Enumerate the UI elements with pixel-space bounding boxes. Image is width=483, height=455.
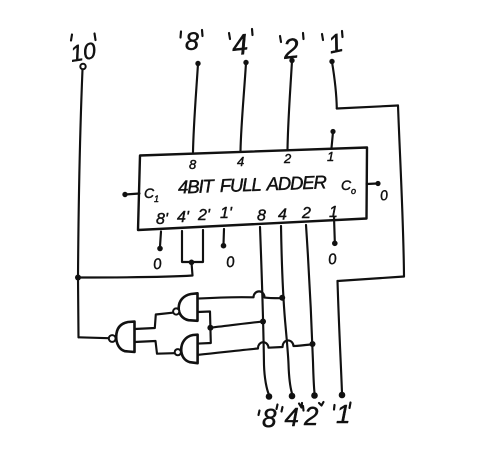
wire C0 stub	[367, 182, 378, 185]
terminal dot 1 top	[329, 59, 334, 64]
terminal dot pin 1 stub	[332, 241, 338, 247]
wire 1 top down to jog	[332, 62, 337, 109]
node adder pin1 top stub	[330, 129, 335, 134]
tick left of 1 top	[322, 34, 323, 40]
svg-text:2: 2	[301, 205, 311, 222]
wire 8 top to adder	[193, 64, 198, 152]
wire shared node to 8 line	[210, 322, 261, 328]
wire right side vertical	[398, 106, 404, 277]
wire pin 4 vertical to bottom terminal	[281, 226, 292, 394]
tick left of 2 bottom	[302, 406, 305, 411]
terminal dot 1 bottom	[339, 392, 346, 399]
pin label 2 bottom row	[301, 205, 311, 222]
label 0 at pin 1	[327, 251, 338, 269]
tick right of 4 top	[251, 29, 254, 35]
terminal dot 8'	[157, 246, 163, 252]
wire junction down and left to node A	[78, 262, 193, 277]
tick right of 8 bottom	[277, 405, 278, 410]
tick right of 2 bottom	[319, 402, 324, 406]
svg-text:1': 1'	[220, 205, 233, 222]
svg-text:4': 4'	[177, 209, 190, 226]
label "4" top	[230, 29, 249, 63]
svg-text:8: 8	[257, 208, 266, 225]
label "1" top	[325, 27, 345, 59]
label "2" top	[281, 32, 301, 65]
wire G1 input A jog to G2 output	[135, 313, 173, 329]
svg-text:8': 8'	[156, 211, 169, 228]
pin label 2 top row	[283, 151, 292, 166]
node junction 10/carry wire	[75, 275, 81, 281]
wire right loop bottom horizontal	[338, 277, 405, 282]
terminal dot 4 bottom	[289, 393, 296, 400]
4-bit full adder block body U1	[138, 148, 367, 231]
wire 8' stub	[160, 232, 161, 247]
label "8" top	[185, 28, 199, 56]
label 0 at C0	[379, 187, 389, 204]
pin label 8 top row	[189, 157, 197, 172]
wire G3 input B with hops over 8 and 4 lines	[198, 340, 310, 354]
nand gate G1 body (points left)	[116, 322, 134, 352]
tick left of 2 top	[280, 36, 281, 42]
pin label 8 bottom row	[257, 208, 266, 225]
terminal dot 8 top	[195, 61, 200, 66]
G1 output bubble	[109, 335, 116, 342]
node G2 inA on 4 line	[279, 295, 285, 301]
svg-text:0: 0	[225, 253, 236, 271]
svg-text:1: 1	[336, 399, 350, 429]
svg-text:4: 4	[278, 207, 287, 224]
terminal dot C0	[375, 181, 380, 186]
svg-text:8: 8	[185, 28, 199, 56]
svg-text:1: 1	[154, 194, 159, 204]
wire C1 stub	[125, 194, 140, 195]
tick left of 10	[71, 35, 72, 41]
wire shared node down to G3 input A	[198, 328, 211, 344]
node on 8 line	[260, 319, 266, 325]
nand gate G2 body (points left)	[179, 293, 198, 321]
wire G2 input A with hop over 8 line	[198, 291, 280, 298]
svg-text:10: 10	[68, 37, 98, 67]
terminal dot 4 top	[243, 60, 248, 65]
tick left of 8 top	[179, 32, 182, 38]
node G3 inB on 2 line	[310, 341, 316, 347]
wire pin1 top stub	[332, 132, 334, 148]
tick left of 1 bottom	[333, 405, 336, 410]
svg-text:4: 4	[285, 402, 299, 432]
wire jog right at top	[337, 106, 398, 109]
tick right of 8 top	[201, 30, 204, 36]
wire 10 lower vertical	[77, 278, 80, 338]
tick right of 2 top	[302, 33, 305, 39]
svg-text:8: 8	[189, 157, 197, 172]
svg-text:2: 2	[283, 151, 292, 166]
terminal dot 8 bottom	[266, 393, 273, 400]
label 4BIT FULL ADDER	[178, 171, 327, 197]
pin label 1 top row	[327, 149, 334, 164]
svg-text:4: 4	[230, 29, 249, 63]
label C0 carry-out	[341, 177, 356, 196]
label "4" bottom	[285, 402, 299, 432]
svg-text:4: 4	[237, 154, 244, 169]
svg-text:0: 0	[379, 187, 389, 204]
pin label 4' bottom row	[177, 209, 190, 226]
svg-text:2': 2'	[197, 207, 211, 224]
terminal dot 1'	[221, 243, 227, 249]
svg-text:2: 2	[303, 401, 319, 431]
svg-text:0: 0	[327, 251, 338, 269]
svg-text:0: 0	[152, 255, 163, 273]
pin label 1 bottom row	[329, 204, 338, 221]
node 4'/2' junction	[189, 260, 195, 266]
terminal dot 2 bottom	[311, 392, 318, 399]
wire 2 top to adder	[288, 61, 293, 150]
tick left of 8 bottom	[259, 411, 260, 416]
wire pin 1 stub bottom	[333, 217, 336, 242]
tick left of 4 top	[229, 33, 230, 39]
tick left of 4 bottom	[282, 407, 283, 412]
pin label 4 bottom row	[278, 207, 287, 224]
terminal dot 2 top	[289, 58, 294, 63]
wire 4'/2' U link	[182, 230, 203, 262]
label "10" input net	[68, 37, 98, 67]
tick right of 1 bottom	[350, 403, 351, 409]
label C1 carry-in	[144, 185, 159, 204]
svg-text:8: 8	[262, 403, 277, 433]
wire loop down to terminal 1	[338, 281, 343, 393]
pin label 2' bottom row	[197, 207, 211, 224]
label "1" bottom	[336, 399, 350, 429]
pin label 4 top row	[237, 154, 244, 169]
svg-text:o: o	[351, 186, 356, 196]
label 0 at 8'	[152, 255, 163, 273]
tick right of 10	[95, 34, 96, 41]
wire 1' stub	[222, 229, 225, 244]
pin label 8' bottom row	[156, 211, 169, 228]
pin label 1' bottom row	[220, 205, 233, 222]
node shared input	[207, 325, 213, 331]
wire pin 2 vertical to bottom terminal	[306, 225, 315, 393]
label "8" bottom	[262, 403, 277, 433]
wire G2 input B down to shared node	[198, 312, 211, 328]
tick right of 4 bottom	[299, 403, 302, 408]
nand gate G3 body (points left)	[181, 335, 197, 364]
wire G1 input B jog to G3 output	[135, 341, 175, 354]
wire 10 vertical down left side	[78, 70, 83, 278]
terminal dot 10	[80, 64, 85, 69]
terminal dot C1	[122, 192, 127, 197]
svg-text:1: 1	[327, 149, 334, 164]
wire to G1 output bubble	[79, 336, 109, 339]
label 0 at 1'	[225, 253, 236, 271]
G2 output bubble	[173, 308, 179, 314]
wire pin 8 vertical to bottom terminal	[260, 227, 269, 394]
tick right of 1 top	[341, 31, 344, 37]
label "2" bottom	[303, 401, 319, 431]
G3 output bubble	[175, 349, 181, 355]
wire 4 top to adder	[241, 63, 247, 151]
